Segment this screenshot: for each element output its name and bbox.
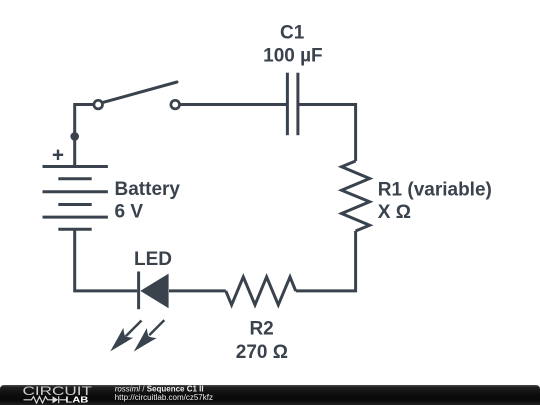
- LED light arrow 1: [110, 321, 141, 352]
- node junction dot: [70, 132, 79, 141]
- wire resistor R1 to corner to resistor R2: [296, 231, 356, 291]
- svg-text:http://circuitlab.com/cz57kfz: http://circuitlab.com/cz57kfz: [115, 393, 213, 402]
- resistor R1 zigzag: [342, 161, 370, 231]
- svg-text:LAB: LAB: [65, 396, 88, 405]
- battery V1 plus sign: [53, 150, 63, 160]
- battery V1 long plate 1: [43, 165, 108, 168]
- battery V1 short plate 3: [58, 228, 91, 231]
- switch SW1 right terminal circle: [171, 100, 180, 109]
- battery V1 long plate 2: [43, 190, 108, 193]
- logo schematic glyph: [24, 396, 67, 403]
- battery V1 short plate 2: [58, 203, 91, 206]
- resistor R2 zigzag: [226, 277, 296, 305]
- wire battery positive to switch corner: [75, 105, 94, 167]
- wire resistor R2 to LED anode: [169, 289, 226, 292]
- LED light arrow 2: [134, 320, 165, 352]
- wire LED cathode to battery negative: [75, 229, 137, 291]
- LED D1 triangle: [140, 274, 168, 309]
- switch SW1 lever: [102, 82, 177, 103]
- switch SW1 left terminal circle: [94, 100, 103, 109]
- wire switch to capacitor C1: [180, 103, 287, 106]
- battery V1 short plate 1: [58, 177, 91, 180]
- capacitor C1 left plate: [286, 73, 289, 136]
- logo diode triangle: [53, 396, 59, 403]
- battery V1 long plate 3: [43, 216, 108, 219]
- capacitor C1 right plate: [296, 73, 299, 136]
- footer bar: [0, 385, 540, 405]
- wire capacitor C1 to resistor R1: [298, 105, 356, 162]
- LED D1 cathode bar: [137, 272, 140, 310]
